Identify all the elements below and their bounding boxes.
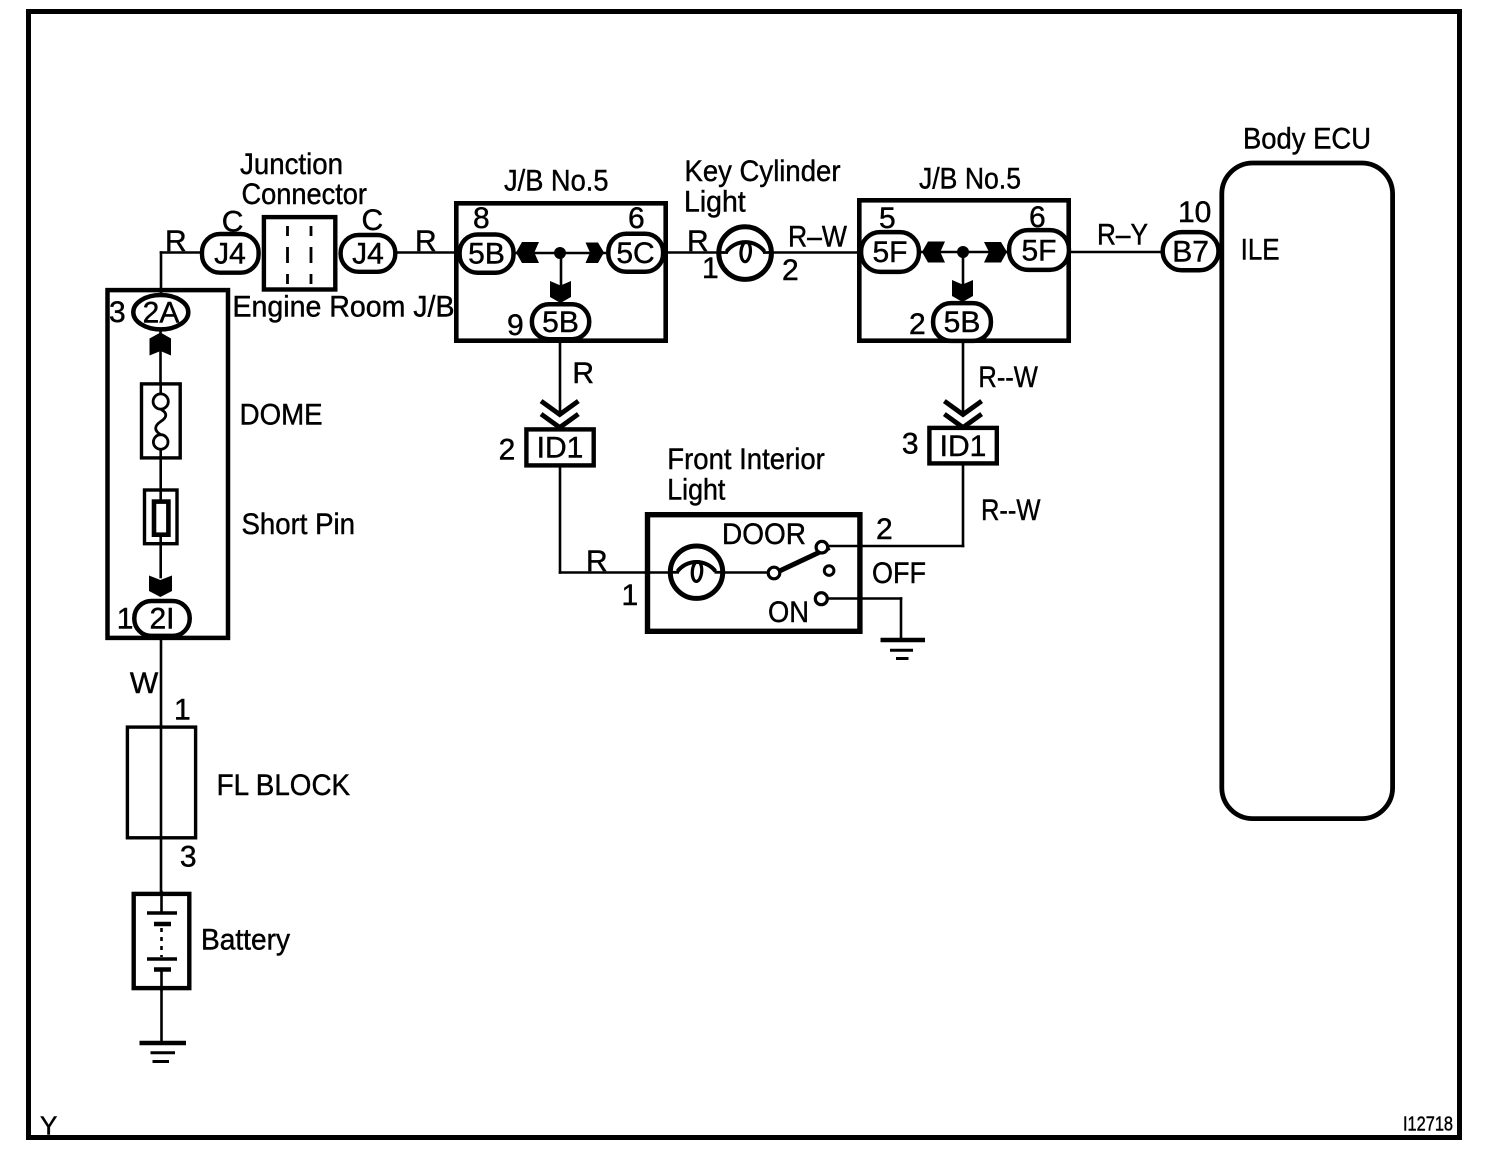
svg-text:J/B No.5: J/B No.5 <box>919 163 1021 196</box>
svg-text:2: 2 <box>876 513 893 546</box>
svg-text:R: R <box>586 545 608 578</box>
svg-text:5F: 5F <box>1021 235 1056 268</box>
svg-text:R--W: R--W <box>981 494 1041 527</box>
svg-text:Light: Light <box>667 474 726 507</box>
svg-text:2: 2 <box>909 308 926 341</box>
svg-text:Junction: Junction <box>240 148 343 181</box>
svg-text:2I: 2I <box>149 603 174 636</box>
svg-text:Light: Light <box>684 186 746 219</box>
svg-text:ILE: ILE <box>1241 234 1280 267</box>
svg-text:1: 1 <box>117 603 134 636</box>
svg-text:R: R <box>415 225 437 258</box>
svg-text:Battery: Battery <box>201 924 290 957</box>
svg-text:3: 3 <box>109 296 126 329</box>
svg-text:6: 6 <box>628 202 645 235</box>
svg-text:R–W: R–W <box>788 221 848 254</box>
svg-text:2: 2 <box>782 254 799 287</box>
svg-text:B7: B7 <box>1172 236 1209 269</box>
svg-text:5B: 5B <box>542 306 579 339</box>
svg-text:9: 9 <box>507 309 524 342</box>
svg-text:R--W: R--W <box>978 361 1038 394</box>
svg-text:OFF: OFF <box>872 557 926 590</box>
svg-text:ID1: ID1 <box>940 430 987 463</box>
svg-text:DOME: DOME <box>240 399 323 432</box>
svg-text:3: 3 <box>902 428 919 461</box>
svg-text:C: C <box>362 204 384 237</box>
svg-text:I12718: I12718 <box>1403 1114 1453 1136</box>
svg-text:2: 2 <box>499 434 516 467</box>
svg-text:6: 6 <box>1029 201 1046 234</box>
svg-text:5B: 5B <box>468 238 505 271</box>
svg-text:W: W <box>130 667 159 700</box>
svg-text:2A: 2A <box>143 297 180 330</box>
svg-text:5F: 5F <box>872 236 907 269</box>
svg-text:J4: J4 <box>352 238 384 271</box>
svg-text:R: R <box>165 225 187 258</box>
svg-text:5: 5 <box>879 202 896 235</box>
svg-text:3: 3 <box>180 841 197 874</box>
svg-text:Key Cylinder: Key Cylinder <box>685 155 841 188</box>
svg-text:1: 1 <box>174 694 191 727</box>
svg-text:J4: J4 <box>214 238 246 271</box>
svg-text:FL BLOCK: FL BLOCK <box>217 769 351 802</box>
svg-text:10: 10 <box>1178 196 1211 229</box>
svg-text:8: 8 <box>473 202 490 235</box>
svg-text:1: 1 <box>622 579 639 612</box>
svg-text:1: 1 <box>702 252 719 285</box>
svg-text:5B: 5B <box>944 306 981 339</box>
svg-text:Engine Room J/B: Engine Room J/B <box>233 291 455 324</box>
svg-text:Short Pin: Short Pin <box>242 508 356 541</box>
svg-text:J/B No.5: J/B No.5 <box>504 165 609 198</box>
svg-text:Y: Y <box>40 1111 57 1141</box>
svg-text:Connector: Connector <box>242 178 368 211</box>
svg-text:5C: 5C <box>616 237 654 270</box>
svg-text:R: R <box>572 357 594 390</box>
svg-text:DOOR: DOOR <box>722 518 806 551</box>
svg-text:ID1: ID1 <box>537 432 584 465</box>
svg-text:ON: ON <box>768 596 809 629</box>
svg-text:C: C <box>222 206 244 239</box>
svg-text:Front Interior: Front Interior <box>667 443 825 476</box>
svg-text:Body ECU: Body ECU <box>1243 123 1371 156</box>
svg-text:R–Y: R–Y <box>1097 219 1148 252</box>
